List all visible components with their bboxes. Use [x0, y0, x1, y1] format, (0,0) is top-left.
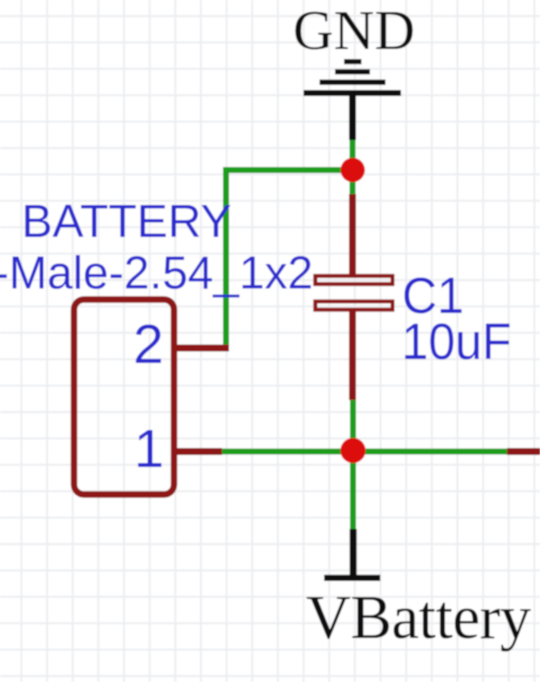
capacitor C1	[315, 194, 392, 400]
pin 1	[174, 448, 222, 455]
wire	[223, 167, 353, 173]
svg-text:-Male-2.54_1x2: -Male-2.54_1x2	[0, 247, 313, 299]
ground symbol	[304, 59, 402, 140]
connector J1 BATTERY body	[74, 300, 174, 495]
svg-text:10uF: 10uF	[402, 313, 512, 370]
svg-text:BATTERY: BATTERY	[22, 195, 232, 247]
wire	[350, 180, 356, 196]
wire	[218, 449, 510, 455]
wire	[350, 452, 356, 531]
wire	[223, 167, 229, 351]
power symbol VBattery	[324, 529, 380, 581]
svg-text:VBattery: VBattery	[306, 584, 531, 652]
svg-text:GND: GND	[293, 0, 415, 62]
junction	[340, 438, 365, 463]
wire	[350, 138, 356, 172]
pin 2	[174, 345, 229, 352]
svg-text:1: 1	[134, 419, 164, 479]
pin of off-sheet component	[507, 448, 540, 455]
svg-text:2: 2	[133, 313, 164, 375]
junction	[341, 158, 365, 182]
wire	[350, 398, 356, 440]
